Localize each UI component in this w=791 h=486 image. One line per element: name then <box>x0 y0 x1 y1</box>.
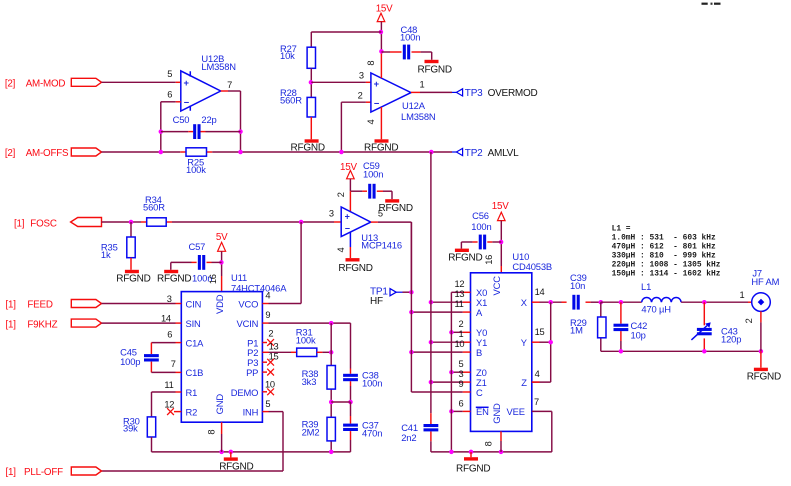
pin 4 stub U12A <box>380 107 382 139</box>
svg-text:OVERMOD: OVERMOD <box>488 88 538 99</box>
pin 2 stub U13 <box>349 191 351 212</box>
net label AM-OFFS <box>5 148 69 159</box>
ground rail output <box>601 350 761 352</box>
svg-text:100k: 100k <box>296 335 316 346</box>
cropped text fragment (top) <box>702 3 721 5</box>
pin 6 label U10 <box>459 398 464 408</box>
wire FOSC to R35 <box>130 222 132 237</box>
test point TP2 <box>452 148 463 155</box>
svg-text:B: B <box>476 347 482 358</box>
svg-text:VCO: VCO <box>238 298 258 309</box>
svg-text:22p: 22p <box>201 114 216 125</box>
label U12B <box>201 53 236 72</box>
wire U12A - input <box>341 102 371 152</box>
label U13 <box>361 232 402 251</box>
wire P2 to R31 <box>262 351 296 353</box>
svg-text:L1: L1 <box>641 281 651 292</box>
wire R38 chain <box>330 323 332 452</box>
node rail pin8 U10 <box>499 450 504 455</box>
ground RFGND (C59) <box>379 199 413 214</box>
svg-text:150µH : 1314 - 1602 kHz: 150µH : 1314 - 1602 kHz <box>612 269 721 278</box>
svg-text:[2]: [2] <box>5 78 16 89</box>
svg-text:MCP1416: MCP1416 <box>361 239 402 250</box>
label TP1 HF <box>370 286 388 307</box>
svg-text:100n: 100n <box>400 31 420 42</box>
capacitor C42 <box>614 324 629 331</box>
wire R31 to R38 <box>317 351 331 353</box>
resistor R29 <box>598 317 606 338</box>
resistor R30 <box>147 417 155 437</box>
capacitor C39 <box>562 295 591 310</box>
ground RFGND (R28) <box>291 139 325 153</box>
wire FEED to CIN <box>102 303 182 305</box>
pin 2 label P1 <box>268 328 273 338</box>
svg-text:A: A <box>476 307 483 318</box>
node VCO riser <box>299 220 304 225</box>
svg-text:9: 9 <box>459 379 464 389</box>
label C48 <box>400 24 420 42</box>
label C43 <box>721 325 741 344</box>
driver U13 <box>341 207 371 237</box>
wire C41 stubs <box>430 413 432 452</box>
wire Y0 row <box>451 331 470 333</box>
pin 12 label U10 <box>455 279 465 289</box>
node 15V branch <box>379 30 384 35</box>
wire L1 to J7 <box>681 301 752 303</box>
svg-text:[1]: [1] <box>6 467 17 478</box>
label C56 <box>471 210 491 232</box>
svg-text:1: 1 <box>740 290 745 300</box>
capacitor C48 <box>403 45 410 60</box>
svg-text:FOSC: FOSC <box>30 218 57 229</box>
svg-text:PP: PP <box>246 367 258 378</box>
svg-text:RFGND: RFGND <box>747 372 781 383</box>
node R38/R39 <box>329 400 334 405</box>
svg-text:2: 2 <box>358 91 363 101</box>
ground RFGND (U11) <box>219 452 253 473</box>
net label FEED <box>6 300 53 311</box>
node C38/C37 <box>348 400 353 405</box>
node rail pin8 <box>219 450 224 455</box>
pin R2 no-connect <box>167 408 181 415</box>
svg-text:1: 1 <box>420 80 425 90</box>
svg-text:CIN: CIN <box>186 298 202 309</box>
node B/HF <box>409 350 414 355</box>
resistor R28 <box>307 97 315 117</box>
svg-text:RFGND: RFGND <box>379 203 413 214</box>
svg-text:15V: 15V <box>376 3 393 14</box>
svg-text:[1]: [1] <box>6 300 17 311</box>
pin 2 label U13 <box>336 192 346 197</box>
pin 7 label <box>227 80 232 90</box>
pin 4 label <box>366 119 376 124</box>
pin 5 label U13 <box>378 209 383 219</box>
table L1 values <box>612 224 721 278</box>
wire U10 pin8 <box>500 431 502 452</box>
svg-text:AM-OFFS: AM-OFFS <box>26 148 69 159</box>
svg-text:AM-MOD: AM-MOD <box>26 78 66 89</box>
label R38 <box>302 368 319 387</box>
power 15V (top) <box>376 3 393 21</box>
node Y junction <box>548 340 553 345</box>
svg-text:3: 3 <box>167 294 172 304</box>
svg-text:5V: 5V <box>216 232 228 243</box>
svg-text:1: 1 <box>459 329 464 339</box>
node Y1 tap <box>429 340 434 345</box>
node R31/R38 <box>329 350 334 355</box>
svg-text:RFGND: RFGND <box>448 253 482 264</box>
label R35 <box>101 242 118 260</box>
pin 16 stub U10 <box>500 266 502 273</box>
wire C37 chain <box>350 402 352 452</box>
wire R28 to ground <box>310 117 312 139</box>
svg-text:SIN: SIN <box>186 318 201 329</box>
pin 11 label U10 <box>455 299 464 309</box>
pin 5 label INH <box>265 399 270 409</box>
resistor R38 <box>327 366 335 390</box>
node C56 branch <box>499 240 504 245</box>
svg-text:100n: 100n <box>362 378 382 389</box>
svg-text:560R: 560R <box>280 95 302 106</box>
wire to U12A + <box>311 81 371 83</box>
node X junction <box>548 300 553 305</box>
wire 15V stem <box>380 22 382 52</box>
svg-text:10p: 10p <box>631 329 646 340</box>
svg-text:3: 3 <box>329 209 334 219</box>
capacitor C59 <box>362 184 375 199</box>
pin 14 label U10 <box>535 287 545 297</box>
svg-text:+: + <box>374 78 380 89</box>
svg-text:4: 4 <box>535 369 540 379</box>
pin 5 label U10 <box>459 359 464 369</box>
wire C43 stubs <box>703 302 705 351</box>
wire Y1 row <box>431 341 471 343</box>
svg-text:Z: Z <box>521 377 527 388</box>
node R29 top <box>599 300 604 305</box>
ground RFGND (R35) <box>116 270 150 285</box>
wire C row <box>411 312 470 392</box>
svg-text:16: 16 <box>484 255 494 265</box>
svg-text:X: X <box>521 297 528 308</box>
svg-text:PLL-OFF: PLL-OFF <box>24 467 63 478</box>
node EN tap <box>449 409 454 414</box>
svg-text:12: 12 <box>455 279 465 289</box>
label R31 <box>296 326 316 345</box>
svg-text:C56: C56 <box>472 210 489 221</box>
pin 9 label U11 <box>265 310 270 320</box>
connector F9KHZ <box>71 319 101 327</box>
wire FOSC row <box>102 221 342 223</box>
node TP1/HF <box>409 290 414 295</box>
wire C42 stubs <box>620 302 622 351</box>
connector FOSC <box>71 218 102 227</box>
svg-text:74HCT4046A: 74HCT4046A <box>231 282 287 293</box>
pin 15 label U10 <box>535 327 545 337</box>
svg-text:14: 14 <box>161 313 171 323</box>
pin 16 stub U11 <box>221 276 223 292</box>
svg-text:TP3: TP3 <box>465 88 483 99</box>
pin PP no-connect <box>262 369 274 376</box>
label U12A <box>401 100 436 122</box>
svg-text:2: 2 <box>459 319 464 329</box>
svg-text:C: C <box>476 387 483 398</box>
node X1/AMLVL <box>429 300 434 305</box>
svg-text:DEMO: DEMO <box>231 387 259 398</box>
label C37 <box>362 419 382 438</box>
connector AM-MOD <box>71 78 101 86</box>
svg-text:3: 3 <box>359 71 364 81</box>
ground RFGND (C48) <box>418 60 452 76</box>
ground RFGND (C56) <box>448 249 482 264</box>
wire INH to PLL-OFF <box>102 412 284 471</box>
wire F9KHZ to SIN <box>102 322 182 324</box>
svg-text:1M: 1M <box>570 325 583 336</box>
wire TP1 to HF line <box>403 291 412 293</box>
wire C50 row <box>161 131 241 133</box>
svg-text:VDD: VDD <box>214 294 225 314</box>
svg-text:RFGND: RFGND <box>364 143 398 154</box>
pin 5 label <box>167 69 172 79</box>
svg-text:4: 4 <box>336 247 346 252</box>
node feedback left <box>159 129 164 134</box>
wire R30 to rail <box>151 437 153 452</box>
node C43 bottom <box>702 349 707 354</box>
svg-text:6: 6 <box>167 89 172 99</box>
resistor R34 <box>147 218 167 226</box>
wire AMLVL vertical <box>430 152 432 413</box>
label C59 <box>363 160 383 179</box>
svg-text:7: 7 <box>171 359 176 369</box>
label TP2 AMLVL <box>465 148 519 159</box>
label R29 <box>570 317 587 336</box>
pin 9 label U10 <box>459 379 464 389</box>
wire C48 to ground <box>412 52 432 60</box>
wire X0 vertical <box>450 292 452 452</box>
test point TP3 <box>452 89 463 96</box>
resistor R27 <box>307 47 315 68</box>
svg-text:RFGND: RFGND <box>338 263 372 274</box>
svg-text:GND: GND <box>491 403 502 424</box>
pin 1 label U10 <box>459 329 464 339</box>
ground RFGND (U12A) <box>364 139 398 153</box>
label U10 <box>512 251 552 272</box>
svg-text:VEE: VEE <box>507 406 525 417</box>
op-amp U12A <box>371 73 411 112</box>
pin 3 label U11 <box>167 294 172 304</box>
capacitor C41 <box>424 424 439 431</box>
test point TP1 <box>390 289 403 296</box>
label J7 <box>751 268 779 288</box>
capacitor C37 <box>343 424 358 431</box>
svg-text:LM358N: LM358N <box>401 111 436 122</box>
pin 16 label U10 <box>484 255 494 265</box>
svg-text:560R: 560R <box>143 201 165 212</box>
connector PLL-OFF <box>71 467 101 475</box>
svg-text:2M2: 2M2 <box>302 427 320 438</box>
connector AM-OFFS <box>71 148 101 156</box>
node C42 top <box>619 300 624 305</box>
svg-text:15V: 15V <box>340 162 357 173</box>
svg-text:R2: R2 <box>186 406 198 417</box>
svg-text:10: 10 <box>455 339 465 349</box>
wire Z stub <box>532 381 540 383</box>
pin 12 label U11 <box>164 399 174 409</box>
wire C59 to ground <box>377 191 392 199</box>
pin 10 label U10 <box>455 339 465 349</box>
wire HF vertical <box>410 222 412 312</box>
svg-text:14: 14 <box>535 287 545 297</box>
svg-text:2n2: 2n2 <box>401 432 416 443</box>
label R30 <box>123 415 140 433</box>
wire U12B - feedback <box>161 102 181 152</box>
svg-text:10k: 10k <box>280 50 295 61</box>
ground RFGND (U10) <box>456 452 490 475</box>
pin 16 label U11 <box>208 274 218 284</box>
net label F9KHZ <box>6 320 58 331</box>
wire R1 row <box>152 392 182 417</box>
pin 1 label J7 <box>740 290 745 300</box>
node R27/R28/+in <box>309 80 314 85</box>
wire mid link <box>331 401 350 403</box>
wire U13 output <box>371 222 412 292</box>
svg-text:RFGND: RFGND <box>456 464 490 475</box>
pin 4 label U13 <box>336 247 346 252</box>
label R27 <box>280 43 297 61</box>
svg-text:13: 13 <box>455 289 465 299</box>
wire AM-MOD to U12B + <box>102 81 181 83</box>
capacitor C38 <box>343 374 358 381</box>
capacitor C43 (variable) <box>691 322 711 340</box>
capacitor C57 <box>192 255 212 283</box>
svg-text:470n: 470n <box>362 428 382 439</box>
node Z1 tap <box>429 380 434 385</box>
wire X out <box>532 301 562 303</box>
label TP3 OVERMOD <box>465 88 538 99</box>
power 15V (U13) <box>340 162 357 179</box>
wire J7 pin2 <box>760 311 762 351</box>
svg-text:RFGND: RFGND <box>116 274 150 285</box>
wire X1 row <box>431 301 471 303</box>
svg-text:8: 8 <box>206 430 216 435</box>
svg-text:U12A: U12A <box>402 100 426 111</box>
wire R35 to ground <box>130 258 132 270</box>
node rail gnd stem <box>229 450 234 455</box>
label C41 <box>401 422 418 443</box>
IC U11 74HCT4046A <box>181 292 262 423</box>
svg-text:100n: 100n <box>471 221 491 232</box>
svg-text:6: 6 <box>167 329 172 339</box>
svg-text:4: 4 <box>265 290 270 300</box>
pin 13 label P2 <box>269 341 279 351</box>
node R25 right <box>238 150 243 155</box>
pin 2 label J7 <box>744 318 754 323</box>
label R39 <box>302 419 320 438</box>
wire A row <box>411 311 470 313</box>
pin 10 label U11 <box>265 379 275 389</box>
svg-text:C57: C57 <box>189 241 206 252</box>
wire 15V stem U10 <box>500 221 502 266</box>
node C43 top <box>702 300 707 305</box>
svg-text:330µH : 810 - 999 kHz: 330µH : 810 - 999 kHz <box>612 251 716 260</box>
capacitor C56 <box>479 235 486 250</box>
wire U12A output <box>411 91 452 93</box>
capacitor C45 <box>144 354 159 361</box>
svg-text:R1: R1 <box>186 387 198 398</box>
inductor L1 <box>641 297 681 314</box>
wire 15V to R27 <box>311 32 381 47</box>
pin 8 label U11 <box>206 430 216 435</box>
svg-text:120p: 120p <box>721 334 741 345</box>
svg-text:470 µH: 470 µH <box>641 304 671 315</box>
wire Z0 row <box>451 371 470 373</box>
wire XYZ common <box>532 302 551 382</box>
pin P3 no-connect <box>262 359 274 366</box>
wire EN row <box>451 410 470 412</box>
svg-text:Y: Y <box>521 337 528 348</box>
net label FOSC <box>14 218 57 229</box>
svg-text:39k: 39k <box>123 423 138 434</box>
svg-text:C1B: C1B <box>186 367 204 378</box>
svg-text:3k3: 3k3 <box>302 376 317 387</box>
resistor R25 <box>186 148 207 175</box>
power 5V <box>216 232 228 251</box>
svg-text:8: 8 <box>484 441 494 446</box>
net label AM-MOD <box>5 78 66 89</box>
wire VCIN row <box>262 323 350 368</box>
wire U12B output <box>221 91 241 152</box>
wire to C48 <box>381 51 401 53</box>
wire R29 stubs <box>600 302 602 351</box>
svg-text:5: 5 <box>459 359 464 369</box>
capacitor C50 <box>173 114 217 139</box>
pin 11 label U11 <box>164 380 173 390</box>
resistor R39 <box>327 417 335 441</box>
pin P1 no-connect <box>262 339 274 346</box>
pin 4 stub U13 <box>349 232 351 258</box>
ground RFGND (C57) <box>157 270 191 285</box>
svg-text:7: 7 <box>534 397 539 407</box>
svg-text:8: 8 <box>366 61 376 66</box>
node Z0 tap <box>449 370 454 375</box>
svg-text:VCIN: VCIN <box>236 318 258 329</box>
node AMLVL tap <box>429 150 434 155</box>
label R34 <box>143 194 165 212</box>
IC U10 CD4053B <box>471 273 532 432</box>
svg-text:100k: 100k <box>186 164 206 175</box>
node J7 ground <box>759 349 764 354</box>
svg-text:L1 =: L1 = <box>612 224 631 233</box>
pin 3 label U10 <box>459 369 464 379</box>
svg-text:HF: HF <box>370 296 383 307</box>
svg-text:1k: 1k <box>101 249 111 260</box>
ground RFGND (J7) <box>747 351 781 382</box>
pin 4 label U11 <box>265 290 270 300</box>
connector FEED <box>71 300 101 308</box>
svg-text:13: 13 <box>269 341 279 351</box>
net label PLL-OFF <box>6 467 64 478</box>
node U12A fb <box>339 150 344 155</box>
svg-text:−: − <box>345 224 350 234</box>
ground RFGND (U13) <box>338 258 372 274</box>
svg-text:RFGND: RFGND <box>291 143 325 154</box>
label U11 <box>231 272 287 293</box>
wire Z1 row <box>431 381 471 383</box>
svg-text:−: − <box>184 96 190 107</box>
svg-text:FEED: FEED <box>27 300 52 311</box>
svg-text:VCC: VCC <box>491 276 502 296</box>
svg-text:[1]: [1] <box>14 218 25 229</box>
wire C1B row <box>151 362 181 373</box>
